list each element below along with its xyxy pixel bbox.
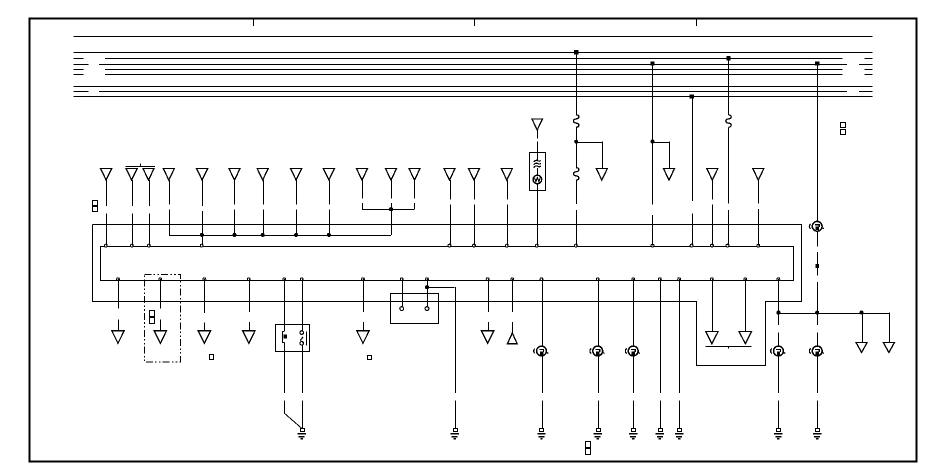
connector triangle A2 — [126, 168, 137, 180]
ECU bottom pin 17 — [711, 278, 714, 281]
ECU bottom pin 14 — [632, 278, 635, 281]
sensor circle S2 — [593, 346, 603, 356]
collector wire A4-A12 — [169, 235, 391, 237]
bulb symbol — [533, 175, 542, 184]
branch P9 right — [427, 287, 455, 289]
connector triangle A13 — [444, 168, 455, 180]
branch wire W1-B1 — [576, 142, 602, 144]
connector triangle A12 — [409, 168, 420, 180]
connector triangle A3 — [143, 168, 154, 180]
junction dot on collector — [233, 233, 237, 237]
connector triangle B3 — [856, 342, 867, 352]
pair bar over A2 A3 — [126, 166, 155, 168]
wire P15 down — [660, 279, 662, 393]
wire P4 down — [249, 279, 251, 312]
ECU bottom pin 16 — [678, 278, 681, 281]
connector triangle C5 — [357, 331, 370, 344]
relay terminal left — [284, 324, 286, 331]
ECU top pin 7 — [505, 244, 508, 247]
wire A15-ECU — [507, 180, 509, 199]
ground G8 — [777, 429, 781, 432]
wire W1 mid — [576, 127, 578, 141]
bus line 3 — [74, 58, 84, 60]
connector mark W5 — [815, 264, 819, 268]
ground G3 — [540, 429, 544, 432]
ECU top pin 10 — [651, 244, 654, 247]
junction dot A11 — [389, 207, 393, 211]
wire P9 down — [427, 279, 429, 307]
connector triangle A5 — [197, 168, 208, 180]
sensor circle W5 — [812, 221, 822, 231]
ECU bottom pin 15 — [659, 278, 662, 281]
top border tick 2 — [474, 19, 476, 26]
indicator lamp box — [530, 153, 546, 191]
ECU top pin 14 — [757, 244, 760, 247]
bus tap dot W1 — [574, 50, 578, 54]
junction dot on collector — [327, 233, 331, 237]
relay box — [276, 325, 310, 352]
relay out right — [302, 351, 304, 393]
bus line 8 — [74, 91, 89, 93]
ground G2 — [454, 429, 458, 432]
ECU bottom pin 11 — [511, 278, 514, 281]
top border tick 1 — [253, 19, 255, 26]
connector triangle A7 — [257, 168, 268, 180]
ECU top pin 2 — [131, 244, 134, 247]
connector triangle C3 — [198, 331, 211, 344]
connector triangle A19 — [753, 168, 764, 180]
sensor circle S1 — [537, 346, 547, 356]
connector triangle B4 — [883, 342, 894, 352]
connector pair mark P2 — [150, 311, 155, 317]
wire P7 down — [363, 279, 365, 312]
junction dot on collector — [294, 233, 298, 237]
junction dot RN1 — [776, 311, 780, 315]
relay out diagonal — [284, 413, 302, 428]
wire A8 drop — [296, 180, 298, 205]
wire W2 lower — [652, 142, 654, 205]
connector box — [391, 294, 439, 324]
branch wire W2-B2 — [653, 142, 670, 144]
small square mark M2 — [368, 356, 372, 360]
ECU outer case outline — [93, 225, 802, 366]
wire A7 drop — [263, 180, 265, 205]
ECU top pin 12 — [711, 244, 714, 247]
wire P12 down — [542, 279, 544, 346]
ground G4 — [597, 429, 601, 432]
wire A12 drop — [414, 180, 416, 199]
ECU bottom pin 6 — [300, 278, 303, 281]
connector triangle C2 — [154, 331, 167, 344]
junction dot on collector — [261, 233, 265, 237]
junction dot on collector — [200, 233, 204, 237]
wire W3 — [692, 97, 694, 202]
junction dot W1 — [574, 140, 578, 144]
wire P1 down — [118, 279, 120, 308]
connector triangle C1 — [112, 331, 125, 344]
junction dot W5 — [815, 311, 819, 315]
wire P10 down — [488, 279, 490, 312]
ground G1 — [301, 429, 305, 432]
wire P3 down — [204, 279, 206, 313]
wire lamp-ECU — [537, 191, 539, 246]
junction bracket A10-A12 — [362, 209, 415, 211]
connector pair mark F2 — [841, 123, 846, 128]
ECU bottom pin 2 — [159, 278, 162, 281]
bus line 1 — [74, 36, 873, 38]
ECU bottom pin 12 — [540, 278, 543, 281]
bus tap dot W3 — [689, 94, 693, 98]
ground G9 — [816, 429, 820, 432]
sensor circle S5 — [812, 346, 822, 356]
fuse symbol W4 — [726, 115, 731, 128]
ECU top pin 4 — [200, 244, 203, 247]
wire RN-sensor — [778, 313, 780, 325]
wire RN-B3 — [862, 313, 864, 343]
ground triangle C7 — [508, 333, 518, 344]
wire P8 down — [402, 279, 404, 307]
ECU top pin 1 — [104, 244, 107, 247]
connector pair mark F1 — [93, 201, 98, 206]
connector triangle lamp — [532, 119, 543, 130]
connector triangle A1 — [101, 168, 112, 180]
connector triangle A14 — [468, 168, 479, 180]
ECU bottom pin 5 — [283, 278, 286, 281]
ECU bottom pin 3 — [203, 278, 206, 281]
wire W5-sensor — [817, 313, 819, 325]
wire P18 down — [745, 279, 747, 331]
connector triangle A16 — [596, 168, 607, 180]
ECU bottom pin 4 — [247, 278, 250, 281]
ECU bottom pin 19 — [777, 278, 780, 281]
wire A2-ECU — [132, 180, 134, 206]
wire W5 dashed — [817, 232, 819, 247]
shield triangle D1 — [706, 331, 719, 343]
connector pair mark F3 — [586, 442, 591, 448]
connector triangle A9 — [323, 168, 334, 180]
ECU top pin 8 — [535, 244, 538, 247]
shield bar — [706, 346, 752, 348]
bus line 6 — [74, 74, 84, 76]
ground G6 — [659, 429, 663, 432]
wire P16 down — [679, 279, 681, 393]
wire A3-ECU — [149, 180, 151, 206]
ECU bottom pin 8 — [400, 278, 403, 281]
wire A13-ECU — [450, 180, 452, 199]
ECU bottom pin 13 — [596, 278, 599, 281]
wire W1 lower — [576, 142, 578, 168]
wire W1 upper — [576, 52, 578, 115]
wire S5-ground — [817, 356, 819, 393]
connector triangle A8 — [291, 168, 302, 180]
junction dot P9 — [425, 285, 429, 289]
connector triangle C6 — [481, 331, 494, 344]
connector box pin 1 — [400, 307, 404, 311]
sensor circle S3 — [628, 346, 638, 356]
connector box pin 2 — [425, 307, 429, 311]
wire P17 down — [712, 279, 714, 331]
wire P6 down — [302, 279, 304, 324]
wire S2-ground — [598, 356, 600, 393]
wire P5 down — [284, 279, 286, 324]
ground G7 — [678, 429, 682, 432]
ground G5 — [632, 429, 636, 432]
connector triangle A6 — [229, 168, 240, 180]
bracket stem — [391, 209, 393, 235]
wire P13 down — [598, 279, 600, 346]
ECU top pin 3 — [148, 244, 151, 247]
wire A1-ECU — [106, 180, 108, 206]
fuse symbol W1b — [574, 168, 579, 181]
wire W5 upper — [817, 64, 819, 222]
wire A9 drop — [329, 180, 331, 205]
wire A10 drop — [362, 180, 364, 199]
ECU top pin 6 — [473, 244, 476, 247]
ECU bottom pin 10 — [486, 278, 489, 281]
ECU bottom pin 7 — [362, 278, 365, 281]
small square mark M1 — [210, 355, 214, 360]
ECU bottom pin 18 — [744, 278, 747, 281]
bus line 2 — [74, 52, 873, 54]
wire A5-ECU — [202, 180, 204, 206]
heater coil in lamp box — [534, 160, 541, 162]
bus line 9 — [74, 96, 873, 98]
connector triangle A4 — [163, 168, 174, 180]
junction dot RN2 — [860, 311, 864, 315]
ECU top pin 9 — [575, 244, 578, 247]
bus line 4 — [74, 64, 89, 66]
sensor circle S4 — [774, 346, 784, 356]
wire S3-ground — [633, 356, 635, 393]
relay out left — [284, 351, 286, 393]
wire lamp top — [537, 130, 539, 138]
wire A14-ECU — [474, 180, 476, 199]
ECU top pin 11 — [690, 244, 693, 247]
wire W4 lower — [728, 127, 730, 203]
wire A19-ECU — [758, 180, 760, 203]
ECU bottom pin 1 — [117, 278, 120, 281]
connector triangle A15 — [501, 168, 512, 180]
bus tap dot W4 — [726, 56, 730, 60]
bus line 5 — [74, 69, 84, 71]
bus tap dot W2 — [650, 61, 654, 65]
wire ECU-RN — [778, 279, 780, 312]
wire P14 down — [633, 279, 635, 346]
junction dot W2 — [651, 140, 655, 144]
wire A11 drop — [391, 180, 393, 199]
wire RN corner — [889, 313, 891, 343]
connector triangle A10 — [356, 168, 367, 180]
wire W4 upper — [728, 58, 730, 115]
connector triangle A17 — [663, 168, 674, 180]
bus line 7 — [74, 86, 873, 88]
wire P2 down — [160, 279, 162, 308]
bus tap dot W5 — [815, 61, 819, 65]
wire W2 upper — [652, 64, 654, 142]
connector triangle A18 — [707, 168, 718, 180]
dash-dot harness box — [144, 274, 180, 362]
ECU top pin 13 — [726, 244, 729, 247]
shield triangle D2 — [739, 331, 752, 343]
wire S4-ground — [778, 356, 780, 393]
wire A6 drop — [234, 180, 236, 205]
lamp box inner stubs — [537, 153, 539, 162]
connector triangle C4 — [243, 331, 256, 344]
ECU bottom pin 9 — [426, 278, 429, 281]
top border tick 3 — [696, 19, 698, 26]
wire A18-ECU — [712, 180, 714, 199]
wire P11 down — [512, 279, 514, 312]
right net wire — [778, 313, 889, 315]
ECU box (engine control module) — [101, 247, 794, 281]
relay switch right — [302, 324, 304, 331]
wire S1-ground — [542, 356, 544, 393]
fuse symbol W1 — [574, 115, 579, 128]
wire A4 drop — [169, 180, 171, 205]
ECU top pin 5 — [448, 244, 451, 247]
connector triangle A11 — [385, 168, 396, 180]
